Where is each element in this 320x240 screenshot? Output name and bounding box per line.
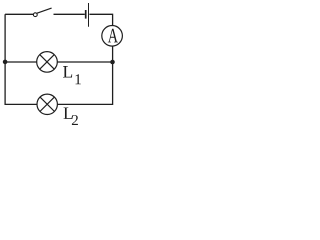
label L2 (64, 107, 73, 118)
lamp L2 filament cross (40, 97, 55, 112)
wire ammeter-to-right-junction segment (112, 46, 114, 62)
lamp L2 body (37, 94, 57, 114)
wire switch-to-battery segment (54, 13, 85, 15)
lamp L1 body (37, 52, 58, 73)
wire top-left segment (5, 13, 33, 15)
switch S pivot (33, 13, 37, 17)
wire battery-to-corner segment (89, 14, 112, 25)
wire lamp-L1-to-right-junction segment (57, 61, 112, 63)
label L1 (63, 66, 72, 77)
wire left-junction-to-lamp-L1 segment (5, 61, 37, 63)
battery negative plate (short thick) (85, 10, 87, 19)
junction left node (3, 60, 8, 65)
wire right-junction-to-bottom-corner segment (58, 62, 113, 104)
ammeter A1 body (102, 26, 123, 47)
battery positive plate (long thin) (88, 3, 90, 27)
wire lamp-L2-to-bottom-left-corner segment (5, 14, 37, 104)
switch S blade (37, 8, 52, 13)
ammeter A1 label A (108, 29, 118, 43)
junction right node (110, 60, 115, 65)
lamp L1 filament cross (40, 55, 55, 70)
